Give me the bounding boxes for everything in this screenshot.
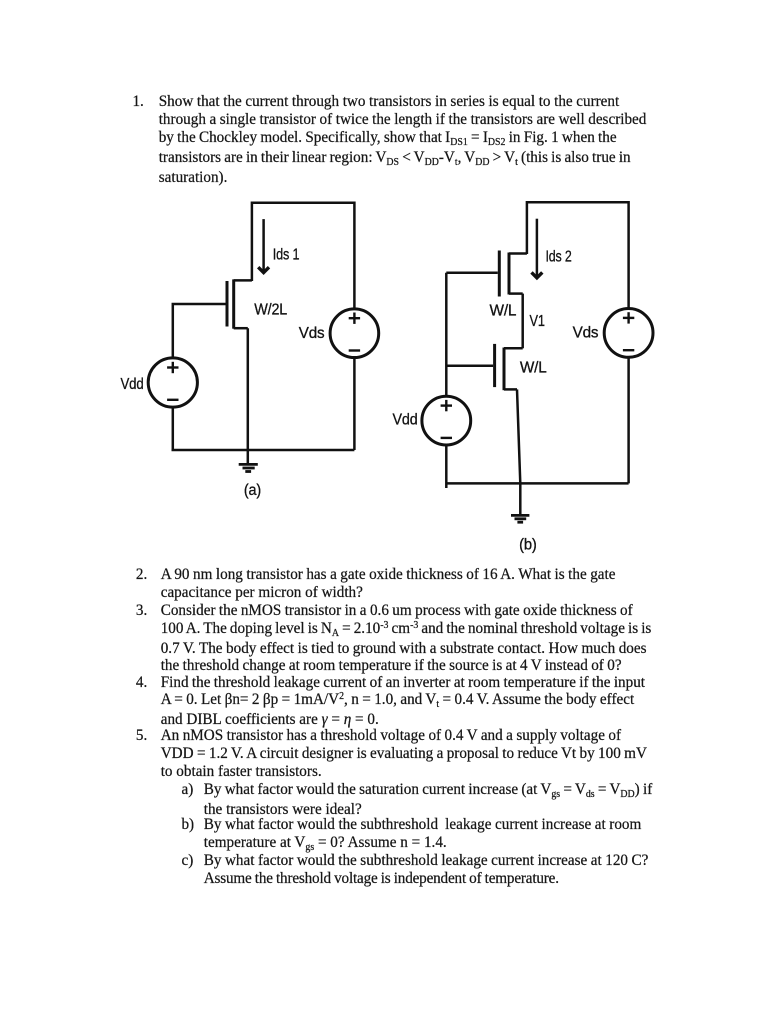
wire: drain of M1 up to top rail across to Vds+ (a): [252, 203, 355, 309]
voltage source Vdd (a): [148, 358, 197, 407]
wire: drain of M2 up to top rail across to Vds+ (b): [527, 202, 629, 308]
M1 channel bar: [232, 279, 235, 328]
Ids1 arrow shaft: [262, 219, 265, 271]
M1 source stub: [234, 327, 248, 330]
svg-text:Vdd: Vdd: [393, 411, 418, 428]
svg-text:Ids 1: Ids 1: [273, 246, 300, 263]
nmos M1 (W/2L): [227, 279, 252, 328]
svg-text:Ids 2: Ids 2: [546, 248, 572, 265]
current arrow Ids2: [532, 219, 543, 278]
wire: Vdd- down to bottom rail (a): [172, 407, 175, 450]
ground (b) bar 2: [515, 517, 527, 520]
ground (b) bar 3: [517, 521, 523, 524]
svg-text:V1: V1: [530, 313, 545, 330]
wire to M3 gate: [446, 364, 493, 367]
M1 drain stub: [234, 279, 252, 282]
ground (b): [511, 515, 529, 522]
ground (a): [239, 464, 258, 471]
svg-text:Vds: Vds: [573, 325, 599, 342]
wire: node V1 between M2 source and M3 drain: [521, 294, 524, 349]
Vdd (b) minus sign: [441, 437, 452, 439]
M2 drain stub: [509, 252, 527, 255]
svg-text:(b): (b): [519, 536, 537, 553]
M3 gate bar: [493, 344, 496, 387]
voltage source Vds (a): [330, 309, 379, 358]
nmos M2 (W/L top): [499, 251, 527, 297]
problem 4 text: [134, 674, 645, 730]
ground (a) bar 1: [239, 463, 258, 466]
svg-text:Vds: Vds: [299, 325, 325, 342]
Vdd (a) circle: [148, 358, 197, 407]
Vdd (b) plus sign: [441, 404, 452, 406]
wire: Vdd- down past bottom rail corner (b): [445, 445, 448, 488]
M1 gate bar: [226, 281, 229, 327]
svg-text:W/L: W/L: [490, 303, 517, 320]
wire: bottom rail (b): [446, 482, 628, 485]
voltage source Vdd (b): [422, 396, 471, 445]
current arrow Ids1: [258, 219, 269, 273]
nmos M3 (W/L bottom): [495, 344, 523, 390]
Vdd (a) minus sign: [167, 399, 178, 401]
M2 source stub: [509, 292, 523, 295]
problem 1 text: [132, 93, 646, 187]
Vdd (b) circle: [422, 396, 471, 445]
Vds (b) circle: [604, 309, 653, 358]
Vds (b) plus sign: [623, 317, 634, 319]
wire: source of M1 down to ground (a): [247, 328, 250, 463]
Ids1 arrowhead: [258, 267, 269, 272]
problem 5b text: [181, 816, 641, 854]
ground (a) bar 2: [243, 467, 255, 470]
problem 3 text: [134, 602, 651, 676]
problem 5 text: [134, 727, 647, 781]
Ids2 arrowhead: [532, 272, 543, 277]
gate bus vertical (b): [445, 273, 448, 397]
M3 source stub: [504, 388, 517, 391]
Vdd (a) plus sign: [167, 366, 178, 368]
svg-text:Vdd: Vdd: [121, 376, 144, 393]
Vds (a) minus sign: [349, 349, 360, 351]
svg-text:(a): (a): [244, 482, 261, 499]
M2 channel bar: [508, 253, 511, 295]
Vds (b) minus sign: [623, 349, 634, 351]
wire: Vds- down to bottom rail (b): [627, 357, 630, 483]
M2 gate bar: [498, 251, 501, 297]
ground (a) bar 3: [245, 470, 251, 473]
wire: Vdd+ up and over to gate of M1 (a): [173, 304, 226, 358]
wire: Vds- down to bottom rail (a): [353, 358, 356, 451]
Vds (a) circle: [330, 309, 379, 358]
problem 5a text: [181, 781, 652, 819]
problem 5c text: [181, 852, 648, 888]
ground (b) bar 1: [511, 514, 529, 517]
M3 channel bar: [503, 348, 506, 391]
Vds (a) plus sign: [349, 317, 360, 319]
voltage source Vds (b): [604, 309, 653, 358]
svg-text:W/2L: W/2L: [254, 302, 287, 319]
M3 drain stub: [504, 347, 523, 350]
wire: gate bus from Vdd+ to gates of M2 and M3 (b): [446, 273, 498, 397]
wire: bottom rail (a): [172, 449, 355, 452]
Ids2 arrow shaft: [536, 219, 539, 276]
wire: source of M3 down to ground (b): [517, 389, 520, 514]
wire to M2 gate: [446, 272, 498, 275]
svg-text:W/L: W/L: [520, 360, 547, 377]
problem 2 text: [134, 566, 615, 602]
